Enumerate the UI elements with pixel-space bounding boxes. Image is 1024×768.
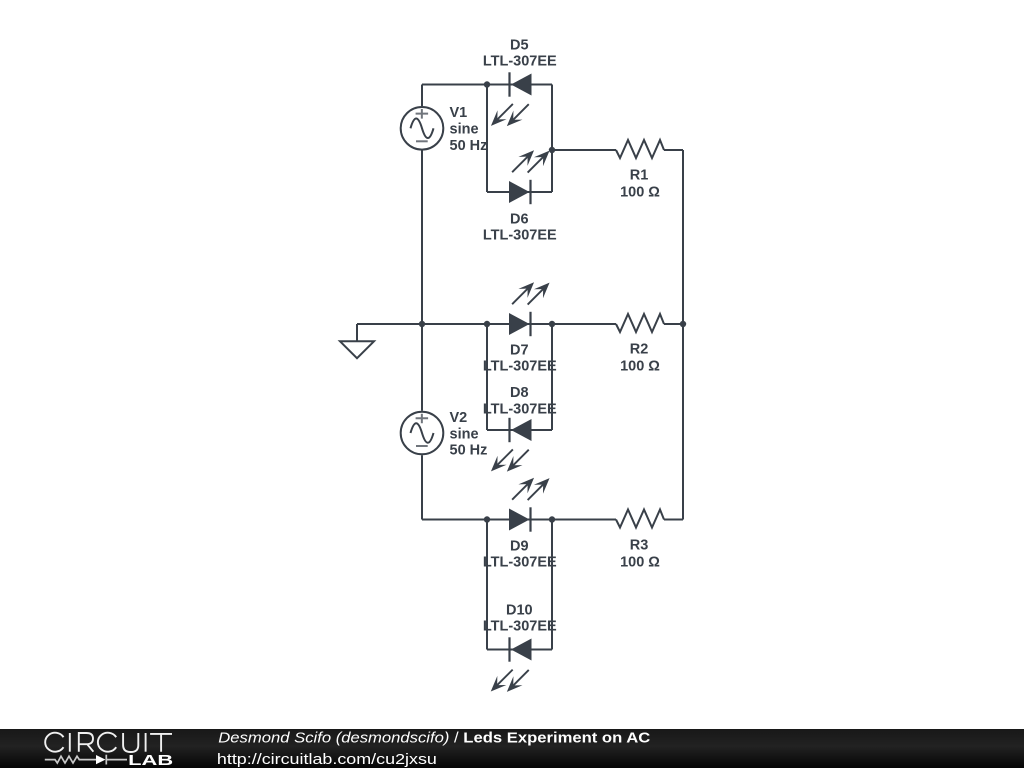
junction node box2 right (549, 321, 555, 327)
svg-text:LTL-307EE: LTL-307EE (483, 54, 557, 70)
svg-text:LTL-307EE: LTL-307EE (483, 402, 557, 418)
LED D10 (486, 637, 533, 696)
svg-text:V2: V2 (450, 410, 468, 426)
wire box1 left vertical (486, 85, 488, 193)
logo letter R (79, 733, 94, 752)
LED D9 (508, 473, 554, 531)
ground (340, 324, 374, 358)
svg-text:sine: sine (450, 122, 479, 138)
svg-text:R2: R2 (630, 342, 649, 358)
svg-text:LTL-307EE: LTL-307EE (483, 555, 557, 571)
svg-text:R3: R3 (630, 537, 649, 553)
svg-text:sine: sine (450, 426, 479, 442)
wire box1 bottom D6 (487, 191, 552, 193)
svg-text:LTL-307EE: LTL-307EE (483, 228, 557, 244)
junction node B (549, 147, 555, 153)
wire ground to middle row (357, 323, 422, 325)
svg-text:D6: D6 (510, 211, 529, 227)
wire R1 to right rail (664, 149, 683, 151)
wire middle row to R2 (422, 323, 616, 325)
svg-text:100 Ω: 100 Ω (620, 359, 660, 375)
resistor R1 (616, 140, 664, 158)
wire R3 to right rail (664, 519, 683, 521)
svg-text:D7: D7 (510, 342, 529, 358)
wire left rail V1 to node A (421, 151, 423, 325)
wire left rail V1 top (421, 85, 423, 107)
logo letter I2 (145, 733, 147, 752)
svg-text:D9: D9 (510, 538, 529, 554)
wire left rail V2 to bottom (421, 455, 423, 519)
junction node A left rail (419, 321, 425, 327)
wire box2 bottom D8 (487, 429, 552, 431)
logo letter C (45, 733, 63, 752)
logo resistor-diode symbol (45, 755, 127, 765)
voltage source V1 (401, 107, 444, 150)
svg-text:D8: D8 (510, 385, 529, 401)
LED D5 (486, 72, 533, 130)
wire bottom row (422, 519, 616, 521)
svg-text:100 Ω: 100 Ω (620, 554, 660, 570)
LED D8 (486, 418, 533, 476)
svg-text:50 Hz: 50 Hz (450, 443, 488, 459)
voltage source V2 (401, 412, 444, 455)
svg-text:D10: D10 (506, 602, 533, 618)
wire box2 left vertical (486, 324, 488, 430)
svg-text:100 Ω: 100 Ω (620, 185, 660, 201)
svg-text:V1: V1 (450, 105, 468, 121)
wire box3 bottom D10 (487, 649, 552, 651)
svg-text:D5: D5 (510, 37, 529, 53)
wire right rail (682, 150, 684, 520)
wire left rail node A to V2 (421, 324, 423, 411)
logo letter I (69, 733, 71, 752)
resistor R2 (616, 314, 664, 332)
svg-text:LAB: LAB (128, 753, 173, 768)
wire top from V1 to D5 box (422, 84, 552, 86)
svg-text:LTL-307EE: LTL-307EE (483, 619, 557, 635)
svg-text:R1: R1 (630, 168, 649, 184)
svg-text:Desmond Scifo (desmondscifo) /: Desmond Scifo (desmondscifo) / Leds Expe… (218, 731, 651, 747)
wire box3 left vertical (486, 520, 488, 650)
LED D6 (508, 146, 554, 204)
logo letter T (150, 734, 172, 752)
LED D7 (508, 278, 554, 336)
junction node bottom right (549, 516, 555, 522)
logo letter U (123, 733, 138, 752)
resistor R3 (616, 510, 664, 528)
wire node B to R1 (552, 149, 616, 151)
junction node top (484, 81, 490, 87)
svg-text:http://circuitlab.com/cu2jxsu: http://circuitlab.com/cu2jxsu (217, 752, 437, 768)
svg-text:50 Hz: 50 Hz (450, 138, 488, 154)
logo letter C2 (98, 733, 116, 752)
junction node right rail (680, 321, 686, 327)
svg-text:LTL-307EE: LTL-307EE (483, 359, 557, 375)
junction node bottom left (484, 516, 490, 522)
footer bar (0, 729, 1024, 768)
wire box3 right vertical (551, 520, 553, 650)
wire R2 to right rail (664, 323, 683, 325)
wire box2 right vertical (551, 324, 553, 430)
junction node A box2 left (484, 321, 490, 327)
wire box1 right vertical (551, 85, 553, 193)
